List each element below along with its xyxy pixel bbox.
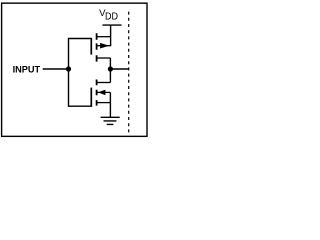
node output junction dot — [108, 66, 113, 71]
dashed bus line (right) — [128, 12, 130, 134]
VDD supply bar — [103, 24, 122, 26]
svg-text:INPUT: INPUT — [13, 64, 41, 74]
transistor N1 drain stub — [97, 82, 111, 84]
transistor P1 channel bars — [96, 33, 98, 61]
border frame — [2, 3, 147, 136]
transistor P1 source stub — [97, 36, 111, 38]
transistor P1 body stub with arrow — [97, 45, 111, 47]
transistor P1 (PMOS) gate bar — [90, 38, 92, 55]
transistor N1 body stub with arrow — [97, 91, 111, 93]
wire input node to PMOS gate (upper branch) — [69, 39, 92, 70]
svg-text:DD: DD — [105, 12, 118, 23]
transistor N1 (NMOS) channel bars — [96, 80, 98, 106]
transistor N1 (NMOS) gate bar — [90, 88, 92, 107]
transistor P1 drain stub — [97, 57, 111, 59]
node input junction dot — [66, 66, 71, 71]
wire PMOS drain to output node down to NMOS drain — [109, 58, 111, 83]
wire NMOS body/source rail to ground — [109, 92, 111, 117]
wire VDD to PMOS source/body rail — [110, 25, 112, 46]
transistor N1 source stub — [97, 102, 111, 104]
transistor N1 body arrow (points left, n-channel) — [98, 90, 105, 96]
transistor P1 body arrow (points right, p-channel) — [100, 43, 109, 49]
ground symbol — [101, 117, 120, 124]
wire INPUT lead — [43, 68, 69, 70]
wire output to dashed bus — [110, 68, 128, 70]
wire input node to NMOS gate (lower branch) — [69, 69, 92, 106]
